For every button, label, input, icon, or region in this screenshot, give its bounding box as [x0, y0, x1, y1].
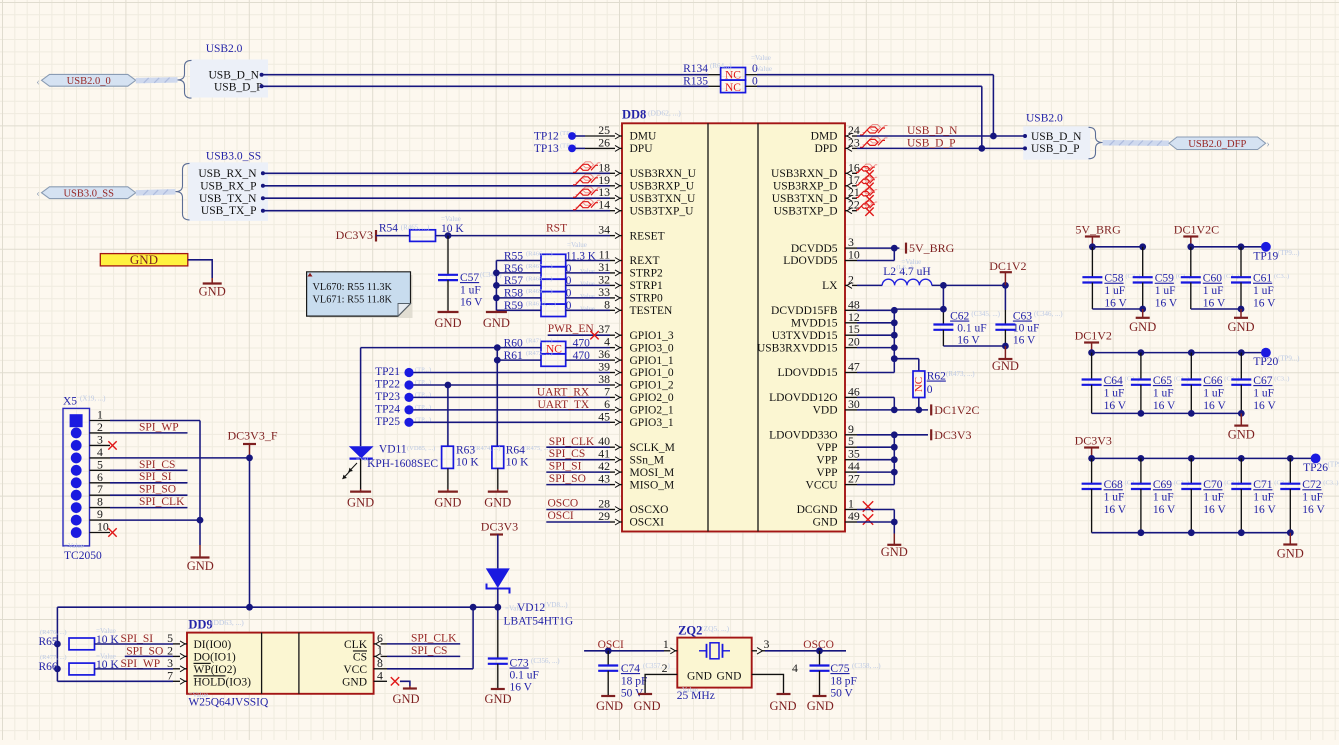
svg-text:DI(IO0): DI(IO0) [194, 639, 232, 651]
svg-text:SPI_CLK: SPI_CLK [139, 496, 185, 508]
svg-text:GND: GND [1129, 320, 1156, 334]
svg-text:LBAT54HT1G: LBAT54HT1G [504, 616, 574, 628]
svg-text:=Value: =Value [751, 54, 771, 62]
svg-text:SPI_SI: SPI_SI [139, 471, 172, 483]
svg-text:GND: GND [769, 699, 796, 713]
svg-text:16 V: 16 V [510, 682, 533, 694]
svg-text:GND: GND [807, 699, 834, 713]
svg-text:USB2.0_DFP: USB2.0_DFP [1188, 139, 1246, 150]
svg-text:16 V: 16 V [1253, 298, 1276, 310]
svg-text:C63: C63 [1013, 311, 1032, 323]
svg-text:R62: R62 [927, 371, 946, 383]
svg-text:ZQ2: ZQ2 [678, 624, 702, 638]
svg-text:(R471, ...): (R471, ...) [526, 338, 553, 345]
svg-text:1 uF: 1 uF [1253, 388, 1274, 400]
svg-text:(C3..): (C3..) [1274, 273, 1289, 280]
svg-text:GND: GND [483, 316, 510, 330]
svg-text:(R472, ...): (R472, ...) [526, 350, 553, 357]
svg-text:GND: GND [434, 316, 461, 330]
svg-text:DCVDD5: DCVDD5 [791, 243, 838, 255]
svg-text:UART_TX: UART_TX [537, 399, 589, 411]
svg-text:GND: GND [130, 252, 158, 267]
svg-text:16 V: 16 V [460, 297, 483, 309]
svg-text:GND: GND [1227, 320, 1254, 334]
svg-text:=Val: =Val [356, 456, 369, 463]
svg-text:DCGND: DCGND [797, 504, 838, 516]
svg-text:R54: R54 [379, 223, 398, 235]
svg-text:1 uF: 1 uF [1302, 492, 1323, 504]
svg-text:2: 2 [848, 272, 854, 286]
svg-text:USB3RXP_U: USB3RXP_U [630, 181, 695, 193]
svg-text:VPP: VPP [816, 442, 837, 454]
svg-text:USB3RXN_D: USB3RXN_D [771, 168, 837, 180]
svg-text:R64: R64 [506, 445, 525, 457]
svg-text:(R468, ...): (R468, ...) [526, 275, 553, 282]
svg-text:50 V: 50 V [830, 688, 853, 700]
svg-text:20: 20 [848, 335, 860, 349]
svg-text:10 K: 10 K [441, 223, 464, 235]
svg-text:GND: GND [484, 692, 511, 706]
svg-text:GND: GND [434, 496, 461, 510]
svg-text:USB_D_P: USB_D_P [907, 137, 956, 149]
svg-text:SPI_CS: SPI_CS [549, 448, 585, 460]
svg-text:MISO_M: MISO_M [630, 479, 675, 491]
svg-text:‹: ‹ [36, 77, 39, 88]
svg-text:CS: CS [353, 651, 367, 663]
svg-text:OSCO: OSCO [803, 639, 834, 651]
svg-text:VCCU: VCCU [806, 479, 839, 491]
svg-text:REXT: REXT [630, 255, 660, 267]
svg-text:23: 23 [848, 135, 860, 149]
svg-text:C75: C75 [830, 663, 849, 675]
svg-text:1 uF: 1 uF [1153, 388, 1174, 400]
svg-text:10 K: 10 K [506, 457, 529, 469]
svg-text:16 V: 16 V [1153, 504, 1176, 516]
svg-text:(R469, ...): (R469, ...) [526, 288, 553, 295]
svg-text:GND: GND [1228, 428, 1255, 442]
svg-text:1 uF: 1 uF [1104, 388, 1125, 400]
svg-text:1 uF: 1 uF [460, 285, 481, 297]
svg-text:16 V: 16 V [1155, 298, 1178, 310]
svg-text:LDOVDD5: LDOVDD5 [783, 255, 838, 267]
svg-text:USB3.0_SS: USB3.0_SS [206, 151, 261, 163]
svg-text:VD11: VD11 [379, 444, 407, 456]
svg-text:VDD: VDD [813, 405, 838, 417]
svg-text:16 V: 16 V [1104, 400, 1127, 412]
svg-text:16 V: 16 V [1104, 298, 1127, 310]
svg-text:(ZQ5, ...): (ZQ5, ...) [701, 624, 730, 633]
svg-text:VPP: VPP [816, 467, 837, 479]
svg-text:8: 8 [604, 297, 610, 311]
svg-text:TC2050: TC2050 [64, 550, 102, 562]
svg-text:Value: Value [580, 268, 595, 275]
svg-text:C60: C60 [1203, 273, 1222, 285]
svg-text:GND: GND [342, 676, 367, 688]
svg-text:29: 29 [598, 509, 610, 523]
svg-text:C62: C62 [950, 311, 969, 323]
svg-text:1 uF: 1 uF [1104, 492, 1125, 504]
svg-text:‹: ‹ [36, 189, 39, 200]
svg-text:R63: R63 [456, 445, 475, 457]
svg-text:DMU: DMU [630, 131, 658, 143]
svg-text:2: 2 [662, 661, 668, 675]
svg-text:=Value: =Value [188, 691, 208, 699]
svg-text:C57: C57 [460, 272, 479, 284]
svg-text:TP25: TP25 [375, 416, 400, 428]
svg-text:C64: C64 [1104, 375, 1123, 387]
svg-text:USB_D_N: USB_D_N [209, 70, 260, 82]
svg-text:GND: GND [199, 285, 226, 299]
svg-text:0: 0 [752, 75, 758, 87]
svg-text:USB2.0: USB2.0 [1026, 113, 1063, 125]
svg-text:DC1V2: DC1V2 [1075, 329, 1112, 343]
svg-text:TP22: TP22 [375, 379, 400, 391]
svg-text:0.1 uF: 0.1 uF [957, 323, 986, 335]
svg-text:1 uF: 1 uF [1203, 492, 1224, 504]
svg-text:DCVDD15FB: DCVDD15FB [771, 305, 838, 317]
svg-text:VD12: VD12 [517, 602, 545, 614]
svg-text:R65: R65 [39, 636, 58, 648]
svg-text:DC1V2: DC1V2 [989, 259, 1026, 273]
svg-text:USB_RX_N: USB_RX_N [198, 168, 257, 180]
svg-text:GND: GND [484, 496, 511, 510]
svg-text:USB_TX_P: USB_TX_P [201, 205, 257, 217]
svg-text:UART_RX: UART_RX [537, 387, 590, 399]
svg-text:10 K: 10 K [456, 457, 479, 469]
svg-text:(R474, ...): (R474, ...) [474, 445, 501, 452]
svg-text:VCC: VCC [343, 664, 367, 676]
svg-text:DD8: DD8 [622, 108, 646, 122]
svg-text:C72: C72 [1302, 479, 1321, 491]
svg-text:GND: GND [1277, 547, 1304, 561]
svg-text:DPU: DPU [630, 143, 654, 155]
svg-text:16 V: 16 V [1153, 400, 1176, 412]
svg-text:SPI_CS: SPI_CS [411, 645, 447, 657]
svg-text:C73: C73 [510, 658, 529, 670]
svg-text:OSCO: OSCO [548, 498, 579, 510]
svg-text:C74: C74 [621, 663, 640, 675]
svg-text:TESTEN: TESTEN [630, 305, 673, 317]
svg-text:16 V: 16 V [1203, 298, 1226, 310]
svg-text:4: 4 [377, 669, 383, 683]
svg-text:5V_BRG: 5V_BRG [909, 241, 955, 255]
svg-text:(R465, ...): (R465, ...) [401, 224, 430, 232]
svg-text:GND: GND [881, 545, 908, 559]
svg-text:1 uF: 1 uF [1253, 492, 1274, 504]
svg-text:Value: Value [580, 280, 595, 287]
svg-text:GND: GND [633, 699, 660, 713]
svg-text:LDOVDD33O: LDOVDD33O [769, 430, 837, 442]
svg-text:KPH-1608SEC: KPH-1608SEC [367, 458, 438, 470]
svg-text:DC1V2C: DC1V2C [934, 403, 979, 417]
svg-text:CLK: CLK [344, 639, 368, 651]
svg-text:SPI_SO: SPI_SO [549, 473, 586, 485]
svg-text:SPI_CLK: SPI_CLK [411, 633, 457, 645]
svg-text:1 uF: 1 uF [1155, 285, 1176, 297]
svg-text:GPIO1_1: GPIO1_1 [630, 355, 674, 367]
svg-text:1 uF: 1 uF [1203, 388, 1224, 400]
svg-text:GND: GND [392, 692, 419, 706]
svg-text:TP19: TP19 [1253, 250, 1278, 262]
svg-text:USB3.0_SS: USB3.0_SS [63, 189, 114, 200]
svg-text:18 pF: 18 pF [621, 676, 648, 688]
svg-text:(C346, ...): (C346, ...) [1034, 310, 1063, 318]
svg-text:USB3TXP_U: USB3TXP_U [630, 205, 695, 217]
svg-text:GND: GND [596, 699, 623, 713]
svg-text:(C3..): (C3..) [1274, 376, 1289, 383]
svg-text:47: 47 [848, 360, 860, 374]
svg-text:16 V: 16 V [1104, 504, 1127, 516]
svg-text:USB_D_P: USB_D_P [214, 81, 263, 93]
svg-text:TP26: TP26 [1303, 462, 1328, 474]
svg-text:10: 10 [97, 520, 109, 534]
svg-text:10 uF: 10 uF [1013, 323, 1040, 335]
svg-text:(R476, ...): (R476, ...) [40, 629, 67, 636]
svg-text:C65: C65 [1153, 375, 1172, 387]
svg-text:GND: GND [687, 671, 712, 683]
svg-text:USB_TX_N: USB_TX_N [199, 193, 257, 205]
svg-text:GPIO1_2: GPIO1_2 [630, 380, 674, 392]
svg-text:USB_D_N: USB_D_N [1031, 131, 1082, 143]
svg-text:SCLK_M: SCLK_M [630, 442, 675, 454]
svg-text:DD9: DD9 [188, 618, 212, 632]
svg-text:R134: R134 [683, 63, 708, 75]
svg-text:16 V: 16 V [1013, 335, 1036, 347]
svg-text:TP21: TP21 [375, 366, 400, 378]
svg-text:GND: GND [187, 559, 214, 573]
svg-text:PWR_EN: PWR_EN [548, 323, 595, 335]
svg-text:GPIO2_0: GPIO2_0 [630, 392, 674, 404]
svg-text:RST: RST [546, 223, 567, 235]
svg-text:USB_D_P: USB_D_P [1031, 143, 1080, 155]
svg-text:1 uF: 1 uF [1153, 492, 1174, 504]
svg-text:VL670: R55 11.3K: VL670: R55 11.3K [313, 282, 393, 293]
svg-text:SSn_M: SSn_M [630, 454, 665, 466]
svg-text:TP20: TP20 [1253, 356, 1278, 368]
svg-text:(R475, ...): (R475, ...) [524, 445, 551, 452]
svg-text:GND: GND [717, 671, 742, 683]
svg-text:3: 3 [764, 637, 770, 651]
svg-text:0.1 uF: 0.1 uF [510, 670, 539, 682]
svg-text:USB2.0_0: USB2.0_0 [67, 76, 111, 87]
svg-text:TP23: TP23 [375, 391, 400, 403]
svg-text:(R477, ...): (R477, ...) [40, 654, 67, 661]
svg-text:WP(IO2): WP(IO2) [194, 664, 237, 676]
svg-text:USB2.0: USB2.0 [206, 43, 243, 55]
svg-text:0: 0 [927, 384, 933, 396]
svg-text:VPP: VPP [816, 454, 837, 466]
svg-text:DO(IO1): DO(IO1) [194, 651, 236, 663]
svg-text:MOSI_M: MOSI_M [630, 467, 675, 479]
svg-text:USB3RXVDD15: USB3RXVDD15 [757, 342, 838, 354]
svg-text:16 V: 16 V [1302, 504, 1325, 516]
svg-text:10: 10 [848, 248, 860, 262]
svg-text:DC3V3: DC3V3 [481, 520, 518, 534]
svg-text:STRP1: STRP1 [630, 280, 663, 292]
svg-text:1 uF: 1 uF [1253, 285, 1274, 297]
svg-text:NC: NC [913, 377, 925, 392]
svg-text:=Value: =Value [567, 241, 587, 249]
svg-text:Value: Value [756, 65, 772, 73]
svg-text:MVDD15: MVDD15 [791, 317, 838, 329]
svg-text:SPI_SI: SPI_SI [121, 633, 154, 645]
svg-text:16 V: 16 V [1203, 504, 1226, 516]
svg-text:OSCXO: OSCXO [630, 504, 669, 516]
svg-text:49: 49 [848, 509, 860, 523]
svg-text:DC3V3: DC3V3 [1075, 434, 1112, 448]
svg-text:USB3TXN_U: USB3TXN_U [630, 193, 697, 205]
svg-text:C71: C71 [1253, 479, 1272, 491]
svg-text:OSCI: OSCI [548, 510, 574, 522]
svg-text:27: 27 [848, 472, 860, 486]
svg-text:USB_D_N: USB_D_N [907, 125, 958, 137]
svg-text:Value: Value [580, 305, 595, 312]
svg-text:(C358, ...): (C358, ...) [852, 662, 881, 670]
svg-text:HOLD(IO3): HOLD(IO3) [194, 676, 252, 688]
svg-text:R135: R135 [683, 75, 708, 87]
svg-text:C70: C70 [1203, 479, 1222, 491]
svg-text:NC: NC [725, 82, 741, 94]
svg-text:16 V: 16 V [1253, 504, 1276, 516]
svg-text:7: 7 [167, 669, 173, 683]
svg-text:(R466, ...): (R466, ...) [526, 251, 553, 258]
svg-text:L2: L2 [883, 266, 896, 278]
svg-text:(TP9...): (TP9...) [1278, 355, 1300, 363]
svg-text:SPI_CS: SPI_CS [139, 459, 175, 471]
svg-text:=Value: =Value [96, 653, 116, 661]
svg-text:=Value: =Value [441, 215, 461, 223]
svg-text:4: 4 [792, 661, 798, 675]
svg-text:U3TXVDD15: U3TXVDD15 [772, 330, 838, 342]
svg-text:C69: C69 [1153, 479, 1172, 491]
svg-text:SPI_SO: SPI_SO [139, 484, 176, 496]
svg-text:(X19, ...): (X19, ...) [80, 395, 106, 403]
svg-text:16 V: 16 V [1203, 400, 1226, 412]
svg-text:SPI_CLK: SPI_CLK [549, 436, 595, 448]
svg-text:(TP9...): (TP9...) [1328, 460, 1339, 468]
svg-text:USB_RX_P: USB_RX_P [200, 180, 256, 192]
svg-text:1: 1 [663, 637, 669, 651]
svg-text:26: 26 [598, 135, 610, 149]
svg-text:(L6...): (L6...) [896, 264, 912, 271]
svg-text:DPD: DPD [814, 143, 837, 155]
svg-text:=Value: =Value [678, 686, 698, 694]
svg-text:OSCXI: OSCXI [630, 517, 665, 529]
svg-text:Value: Value [580, 293, 595, 300]
svg-text:USB3RXN_U: USB3RXN_U [630, 168, 697, 180]
svg-text:USB3TXN_D: USB3TXN_D [772, 193, 838, 205]
svg-text:LDOVDD15: LDOVDD15 [777, 367, 837, 379]
svg-text:DMD: DMD [811, 131, 838, 143]
svg-text:16 V: 16 V [957, 335, 980, 347]
svg-text:GPIO2_1: GPIO2_1 [630, 405, 674, 417]
svg-text:›: › [1266, 139, 1269, 150]
svg-text:TP24: TP24 [375, 403, 400, 415]
svg-text:GPIO1_3: GPIO1_3 [630, 330, 674, 342]
svg-text:C61: C61 [1253, 273, 1272, 285]
svg-text:(VD85, ...): (VD85, ...) [407, 445, 435, 452]
svg-text:(R467, ...): (R467, ...) [526, 263, 553, 270]
svg-text:GPIO3_0: GPIO3_0 [630, 342, 674, 354]
svg-text:DC3V3: DC3V3 [336, 228, 373, 242]
svg-text:OSCI: OSCI [598, 639, 624, 651]
svg-text:NC: NC [725, 69, 741, 81]
svg-text:TP12: TP12 [534, 131, 559, 143]
svg-text:STRP0: STRP0 [630, 293, 663, 305]
svg-text:16 V: 16 V [1253, 400, 1276, 412]
svg-text:X5: X5 [63, 396, 77, 408]
svg-text:(R64...): (R64...) [710, 62, 732, 70]
svg-text:GND: GND [813, 517, 838, 529]
svg-text:(R4610, ...): (R4610, ...) [526, 300, 556, 307]
svg-text:(R473, ...): (R473, ...) [946, 370, 975, 378]
svg-text:SPI_WP: SPI_WP [139, 421, 179, 433]
svg-text:=Value: =Value [64, 542, 84, 550]
svg-text:34: 34 [598, 223, 610, 237]
svg-text:TP13: TP13 [534, 143, 559, 155]
svg-text:1 uF: 1 uF [1104, 285, 1125, 297]
svg-text:LDOVDD12O: LDOVDD12O [769, 392, 837, 404]
svg-text:USB3RXP_D: USB3RXP_D [773, 181, 838, 193]
svg-text:30: 30 [848, 397, 860, 411]
svg-text:RESET: RESET [630, 230, 665, 242]
svg-text:GPIO1_0: GPIO1_0 [630, 367, 674, 379]
svg-text:(DD62, ...): (DD62, ...) [648, 109, 681, 118]
svg-text:43: 43 [598, 472, 610, 486]
svg-text:C59: C59 [1155, 273, 1174, 285]
svg-text:(C345, ...): (C345, ...) [971, 310, 1000, 318]
svg-text:C68: C68 [1104, 479, 1123, 491]
svg-text:18 pF: 18 pF [830, 676, 857, 688]
svg-text:DC3V3_F: DC3V3_F [228, 429, 278, 443]
svg-text:C67: C67 [1253, 375, 1272, 387]
svg-text:=Value: =Value [96, 627, 116, 635]
svg-text:(DD63, ...): (DD63, ...) [211, 618, 244, 627]
svg-text:VL671: R55 11.8K: VL671: R55 11.8K [313, 295, 393, 306]
svg-text:SPI_SI: SPI_SI [549, 461, 582, 473]
svg-text:R66: R66 [39, 661, 58, 673]
svg-text:(VD8...): (VD8...) [544, 601, 568, 609]
svg-text:GND: GND [347, 496, 374, 510]
svg-text:DC1V2C: DC1V2C [1174, 223, 1219, 237]
svg-text:GND: GND [992, 359, 1019, 373]
svg-text:5V_BRG: 5V_BRG [1075, 223, 1121, 237]
svg-text:(C356, ...): (C356, ...) [531, 657, 560, 665]
svg-text:45: 45 [598, 409, 610, 423]
svg-text:1 uF: 1 uF [1203, 285, 1224, 297]
svg-text:STRP2: STRP2 [630, 268, 663, 280]
svg-text:C58: C58 [1104, 273, 1123, 285]
svg-text:USB3TXP_D: USB3TXP_D [774, 205, 838, 217]
svg-text:GPIO3_1: GPIO3_1 [630, 417, 674, 429]
svg-text:(C3..): (C3..) [1323, 480, 1338, 487]
svg-text:C66: C66 [1203, 375, 1222, 387]
svg-text:DC3V3: DC3V3 [934, 428, 971, 442]
svg-text:(TP9...): (TP9...) [1278, 249, 1300, 257]
svg-text:LX: LX [822, 280, 838, 292]
